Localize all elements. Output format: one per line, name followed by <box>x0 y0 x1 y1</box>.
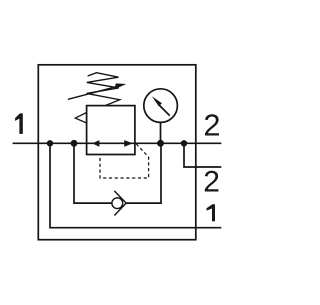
svg-text:2: 2 <box>203 165 220 198</box>
svg-text:2: 2 <box>203 107 220 142</box>
